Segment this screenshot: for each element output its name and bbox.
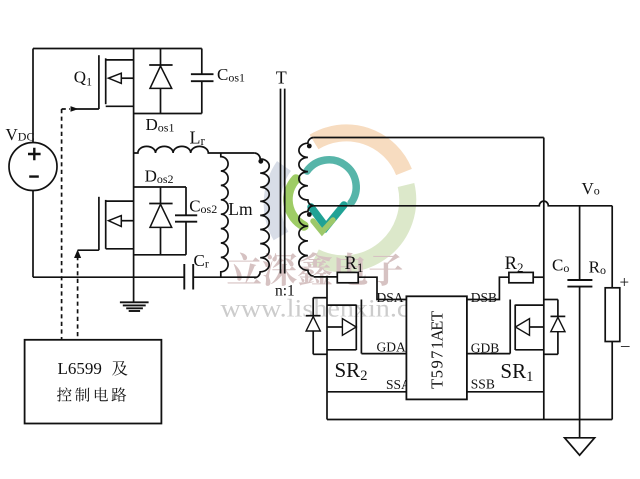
op-amp U1 TEA1795T [406,296,467,399]
inductor Lm [221,153,228,277]
decorative watermark logo [272,133,408,264]
svg-text:L6599: L6599 [58,359,102,378]
node primary dot [258,159,263,164]
wire left rail lower [32,191,34,278]
svg-text:T: T [428,311,447,321]
capacitor Cos1 [191,73,214,75]
transformer primary winding [254,153,269,278]
svg-text:Lm: Lm [228,199,253,219]
diode SR2 body [306,298,327,355]
wire Q1 gate drive [76,108,99,110]
capacitor Co [567,206,592,438]
diode Dos1 [149,49,172,114]
wire bottom rail right [193,276,256,278]
wire GDB [467,353,510,355]
svg-text:DSA: DSA [377,290,404,305]
capacitor Cr [183,264,185,290]
node secondary dot lower [307,212,312,217]
transformer secondary winding upper [299,138,314,206]
svg-text:GDB: GDB [471,341,500,356]
wire top rail [33,48,202,50]
transformer secondary winding lower [299,206,314,276]
svg-text:T: T [276,67,287,87]
wire SR1 rail [543,138,545,420]
wire SSA [327,391,406,393]
wire bottom rail left [33,276,184,278]
svg-text:E: E [428,321,447,331]
source VDC [9,143,57,191]
node secondary dot upper [307,144,312,149]
svg-text:1: 1 [428,341,447,349]
wire left rail upper [32,49,34,143]
svg-text:9: 9 [428,360,447,368]
wire R2 to rail [533,276,544,278]
wire Vo rail with hop [314,201,613,206]
svg-text:GDA: GDA [377,340,406,355]
wire DSB [467,277,509,299]
label TEA1795T [428,311,447,389]
wire DSA [358,277,406,299]
node Dos1 box [134,113,202,115]
wire mid rail [133,49,135,303]
svg-text:7: 7 [428,351,447,359]
node Dos2 box [134,186,186,188]
ground primary [120,302,149,311]
resistor Ro [605,206,620,420]
resistor R2 [509,272,533,282]
svg-text:T: T [428,379,447,389]
wire bottom output rail [327,419,612,421]
ground output [565,438,595,455]
transistor Q1 [99,55,134,109]
diode Dos2 [149,187,172,255]
svg-text:+: + [620,273,630,292]
node control box [25,340,162,424]
svg-text:DSB: DSB [471,290,497,305]
wire GDA [361,353,406,355]
resistor R1 [337,272,358,282]
wire Q2 gate drive [78,249,99,251]
diode SR1 body [544,300,566,355]
svg-text:SSB: SSB [471,377,495,392]
wire secondary bottom [314,276,338,278]
inductor Lr [134,146,255,153]
svg-text:n:1: n:1 [275,283,295,300]
transistor Q2 (lower) [99,197,134,250]
transistor SR1 [510,300,544,354]
wire SSB [467,391,544,393]
svg-text:A: A [428,329,447,341]
transformer T core [280,89,282,274]
transistor SR2 [327,300,361,354]
wire secondary top [314,137,544,139]
svg-text:5: 5 [428,370,447,378]
capacitor Cos2 [175,214,197,216]
label control circuit [57,387,72,401]
svg-text:–: – [620,336,630,355]
wire SR2 bar [326,277,328,420]
